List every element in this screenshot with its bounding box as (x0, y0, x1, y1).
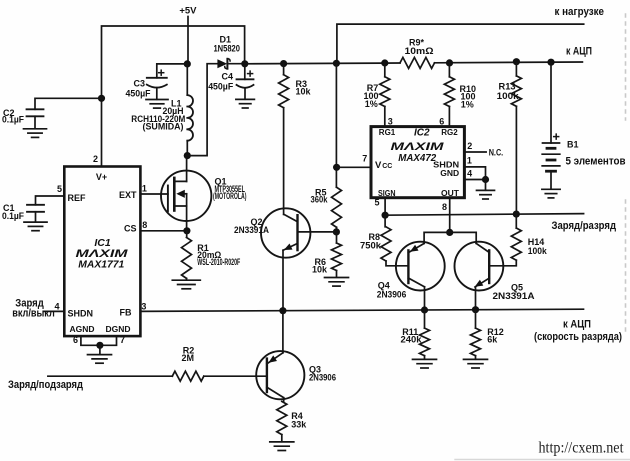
node B1 top (547, 59, 554, 66)
ground of C1 (24, 222, 47, 231)
ground of R6 (325, 278, 349, 287)
svg-text:3: 3 (388, 116, 393, 126)
svg-text:B1: B1 (567, 139, 579, 149)
node R13 top (513, 58, 520, 65)
svg-text:GND: GND (440, 168, 459, 178)
svg-text:IC2: IC2 (414, 128, 430, 139)
wire +5V stub down to L1/C3 node (187, 17, 189, 64)
svg-text:SIGN: SIGN (378, 188, 396, 198)
svg-text:RG2: RG2 (441, 128, 458, 137)
op-amp IC2 MAX472 box (371, 127, 464, 198)
svg-text:4: 4 (467, 169, 472, 179)
svg-text:450µF: 450µF (126, 89, 151, 99)
wire V+ rail from IC1 pin2 up across to D1 cathode node (102, 26, 245, 167)
capacitor C3 450uF polarized (147, 78, 167, 88)
svg-text:V: V (375, 160, 382, 171)
svg-text:2: 2 (467, 141, 472, 151)
resistor R12 6k (475, 310, 477, 328)
svg-text:(SUMIDA): (SUMIDA) (143, 121, 184, 131)
svg-text:C4: C4 (221, 72, 233, 82)
svg-text:10k: 10k (296, 87, 312, 97)
resistor R3 10k (279, 75, 289, 108)
wire Заряд/подзаряд input (48, 375, 172, 377)
resistor R13 100k (515, 63, 517, 215)
node load rail / Vcc junction (333, 60, 340, 67)
node R13/H14 junction (513, 211, 520, 218)
svg-text:SHDN: SHDN (68, 308, 94, 318)
battery B1 5 cells (550, 62, 552, 143)
node Vcc tap (333, 164, 340, 171)
diode D1 1N5820 schottky (217, 59, 244, 69)
svg-text:Заряд/разряд: Заряд/разряд (552, 220, 617, 232)
resistor R2 2M (172, 371, 204, 381)
resistor R5 360k (332, 187, 342, 227)
svg-text:MAX1771: MAX1771 (78, 259, 124, 271)
scan artifact bottom edge (455, 459, 630, 461)
ground of C2 (24, 129, 47, 138)
svg-text:(MOTOROLA): (MOTOROLA) (213, 191, 247, 201)
svg-text:2M: 2M (182, 353, 195, 363)
svg-text:1%: 1% (461, 100, 474, 110)
wire Vcc drop (335, 63, 337, 187)
transistor Q1 MTP3055EL MOSFET (161, 156, 211, 231)
node AGND/DGND junction (96, 342, 103, 349)
svg-text:1: 1 (467, 156, 472, 166)
transistor Q3 2N3906 (256, 311, 304, 402)
svg-text:EXT: EXT (119, 190, 137, 200)
svg-text:1: 1 (142, 184, 147, 194)
svg-text:1N5820: 1N5820 (213, 43, 240, 53)
svg-text:FB: FB (120, 308, 132, 318)
svg-text:2N3391A: 2N3391A (234, 225, 269, 235)
svg-text:450µF: 450µF (208, 81, 233, 91)
svg-text:0.1µF: 0.1µF (2, 211, 24, 221)
svg-text:6k: 6k (487, 334, 498, 344)
svg-text:6: 6 (439, 116, 444, 126)
svg-text:360k: 360k (311, 195, 329, 205)
svg-text:RG1: RG1 (379, 128, 396, 137)
resistor R11 240k (424, 310, 426, 328)
svg-text:750k: 750k (360, 240, 382, 250)
svg-text:10mΩ: 10mΩ (405, 46, 434, 56)
capacitor C2 (27, 109, 44, 116)
ground of IC2 (477, 190, 495, 199)
svg-text:к АЦП: к АЦП (566, 45, 592, 57)
svg-text:3: 3 (141, 301, 146, 311)
svg-text:1%: 1% (365, 99, 378, 109)
inductor L1 20uH (186, 64, 188, 95)
svg-text:(скорость разряда): (скорость разряда) (534, 331, 622, 343)
svg-text:к АЦП: к АЦП (563, 319, 591, 331)
wire OUT bus to Q4/Q5 tops (424, 232, 476, 243)
svg-text:8: 8 (142, 220, 147, 230)
ground of C4 (236, 99, 255, 108)
capacitor C1 (27, 205, 44, 212)
node L1 bottom / Q1 drain / D1 junction (184, 152, 191, 159)
svg-text:33k: 33k (291, 420, 307, 430)
svg-text:240k: 240k (401, 334, 423, 344)
svg-text:AGND: AGND (70, 324, 95, 334)
svg-text:вкл/выкл: вкл/выкл (12, 307, 55, 319)
pin 5 SIGN wire (384, 198, 386, 216)
ground of R11 (413, 359, 437, 368)
capacitor C4 450uF polarized (244, 64, 246, 80)
svg-text:4: 4 (54, 302, 59, 312)
resistor R1 20mOhm (186, 231, 188, 238)
svg-text:2N3906: 2N3906 (309, 372, 336, 382)
svg-text:100k: 100k (497, 91, 520, 101)
svg-text:Заряд/подзаряд: Заряд/подзаряд (8, 379, 83, 391)
svg-text:WSL-2010-R020F: WSL-2010-R020F (197, 257, 240, 267)
svg-text:0.1µF: 0.1µF (2, 115, 24, 125)
svg-text:2N3391A: 2N3391A (493, 291, 536, 301)
pin 4 SHDN wire (44, 310, 65, 312)
node C2 tap (98, 95, 105, 102)
svg-text:5 элементов: 5 элементов (566, 155, 626, 167)
pin 8 OUT wire (449, 198, 451, 233)
svg-text:DGND: DGND (106, 324, 131, 334)
node R7 top (381, 59, 388, 66)
wire to IC2 Vcc pin 7 (337, 166, 371, 168)
node R3 top (280, 60, 287, 67)
wire FB line (battery sense) across to ADC (140, 309, 583, 311)
svg-text:100k: 100k (528, 246, 548, 256)
wire to C3 (157, 64, 188, 78)
transistor Q4 2N3906 (396, 242, 445, 310)
node OUT bus junction (446, 229, 453, 236)
svg-text:+5V: +5V (179, 5, 197, 16)
resistor R9 10mOhm inline (400, 57, 435, 68)
svg-text:2N3906: 2N3906 (377, 289, 407, 299)
scan artifact right edge (625, 14, 627, 332)
svg-text:7: 7 (362, 153, 367, 163)
svg-text:V+: V+ (96, 172, 107, 182)
pins 1,4 SHDN/GND to ground (464, 167, 485, 180)
svg-text:CC: CC (382, 163, 392, 170)
node SIGN/R8/line junction (382, 212, 389, 219)
svg-text:C3: C3 (133, 78, 145, 88)
node L1/C3/+5V junction (184, 60, 191, 67)
svg-text:к нагрузке: к нагрузке (555, 6, 605, 18)
node D1 cathode / C4 / V+ node (241, 60, 248, 67)
wire Заряд/разряд signal line (385, 214, 583, 216)
resistor R6 10k (336, 232, 338, 243)
svg-text:CS: CS (124, 224, 137, 234)
node Q4/R11 junction (421, 306, 428, 313)
node FB/Q2e/Q3 junction (279, 307, 286, 314)
svg-text:http://cxem.net: http://cxem.net (539, 440, 625, 457)
resistor R4 33k (277, 401, 287, 434)
svg-text:7: 7 (120, 335, 125, 345)
node pins 1-4 junction (482, 176, 489, 183)
wire L1 node to D1 anode (187, 64, 217, 156)
resistor H14 100k (515, 214, 517, 228)
wire R2 to Q3 base (204, 375, 267, 377)
svg-text:6: 6 (73, 335, 78, 345)
svg-text:N.C.: N.C. (489, 147, 504, 157)
svg-text:MAX472: MAX472 (398, 152, 436, 164)
svg-text:R13: R13 (499, 82, 516, 92)
transistor Q2 2N3391A (261, 208, 336, 310)
resistor R8 750k (384, 215, 386, 227)
node R5/R6/Q2 base junction (333, 228, 340, 235)
node CS/R1/Q1 source junction (183, 227, 190, 234)
node Q5/R12 junction (472, 306, 479, 313)
ground of B1 (542, 189, 560, 198)
svg-text:5: 5 (57, 184, 62, 194)
node R10 top (446, 59, 453, 66)
wire rail to load (к нагрузке) (337, 24, 584, 63)
svg-text:5: 5 (374, 198, 379, 208)
wire rail to ADC (battery +) (245, 62, 400, 65)
ground of R1 (172, 280, 200, 289)
IC1 ground pins 6,7 (81, 336, 117, 345)
transistor Q5 2N3391A (455, 242, 504, 310)
svg-text:8: 8 (442, 202, 447, 212)
ground of C3 (146, 100, 168, 109)
op-amp/controller IC1 MAX1771 box (64, 167, 140, 337)
svg-text:2: 2 (93, 154, 98, 164)
ground of R4 (270, 442, 294, 451)
wire EXT to gate (140, 193, 168, 195)
wire CS to R1/Q1 source (140, 230, 187, 232)
ground of R12 (464, 359, 488, 368)
ground of IC1 (88, 355, 112, 364)
svg-text:10k: 10k (312, 265, 328, 275)
wire C2 tap (35, 98, 102, 109)
pin 2 N.C. (464, 151, 486, 153)
svg-text:REF: REF (68, 193, 87, 203)
svg-text:OUT: OUT (441, 188, 460, 198)
